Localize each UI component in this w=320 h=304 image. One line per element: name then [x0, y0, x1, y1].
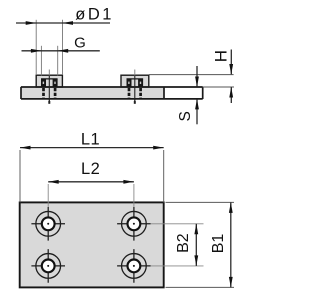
svg-text:S: S: [177, 111, 194, 121]
svg-text:L1: L1: [81, 131, 100, 149]
hole bottom-right counterbore circle: [122, 254, 147, 279]
hole bottom-left center dot: [47, 265, 49, 267]
hole top-left thread ring: [42, 217, 55, 230]
G arrow left: [31, 49, 42, 53]
oD1 arrow left: [26, 21, 37, 25]
svg-text:B1: B1: [210, 234, 227, 254]
hole top-left counterbore circle: [36, 211, 61, 236]
insert top line (right boss): [127, 78, 144, 80]
hidden hole dashes (left boss): [42, 88, 45, 99]
dimension H line lower: [230, 87, 232, 103]
hole bottom-right center dot: [133, 265, 135, 267]
insert section left-wall (right boss): [127, 79, 132, 87]
insert section right-wall (left boss): [53, 79, 58, 87]
hole bottom-left crosshair: [31, 249, 65, 283]
svg-text:L2: L2: [81, 160, 100, 178]
dimension G extension lines: [40, 46, 42, 76]
hole bottom-right thread ring: [127, 260, 140, 273]
dimension S line lower: [196, 99, 198, 124]
S arrow down: [195, 77, 199, 88]
hole top-left center dot: [47, 223, 49, 225]
hole top-right center dot: [133, 223, 135, 225]
L1 arrow right: [153, 146, 164, 150]
dimension L1 extension lines: [19, 150, 21, 202]
hole bottom-right crosshair: [117, 249, 151, 283]
S arrow up: [195, 99, 199, 110]
hole top-left crosshair: [31, 207, 65, 241]
centerline (left boss): [48, 70, 50, 76]
svg-text:øD1: øD1: [75, 5, 114, 23]
dimension L1 line: [20, 147, 164, 149]
dimension oD1 extension lines: [35, 20, 37, 75]
svg-text:B2: B2: [175, 233, 192, 253]
hidden hole dashes (right boss): [128, 88, 131, 99]
B2 arrow up: [194, 224, 198, 235]
dimension B1 line: [230, 202, 232, 287]
plate outline (side view): [21, 87, 203, 99]
dimension B2 extension lines: [151, 223, 204, 225]
dimension L2 line: [48, 181, 134, 183]
plate body white section (side view): [164, 87, 203, 99]
L1 arrow left: [20, 146, 31, 150]
dimension H extension line (boss top): [149, 74, 234, 76]
plate body gray section (side view): [21, 87, 164, 99]
H arrow up: [229, 87, 233, 98]
hole bottom-left counterbore circle: [36, 254, 61, 279]
dimension H extension line (plate top): [203, 86, 234, 88]
dimension B2 line: [195, 224, 197, 266]
B2 arrow down: [194, 255, 198, 266]
centerline (right boss): [134, 70, 136, 76]
dimension L2 extension lines: [47, 184, 49, 207]
hole top-right thread ring: [127, 217, 140, 230]
hole top-right counterbore circle: [122, 211, 147, 236]
dimension S line upper: [196, 66, 198, 87]
insert top line (left boss): [41, 78, 58, 80]
svg-text:H: H: [211, 50, 230, 62]
oD1 arrow right: [63, 21, 74, 25]
svg-text:G: G: [74, 35, 86, 52]
baseplate (bottom view): [20, 202, 164, 287]
H arrow down: [229, 64, 233, 75]
dimension H line upper: [230, 50, 232, 75]
B1 arrow down: [229, 277, 233, 288]
G arrow right: [58, 49, 68, 53]
L2 arrow left: [48, 180, 59, 184]
insert section right-wall (right boss): [138, 79, 143, 87]
insert section left-wall (left boss): [41, 79, 46, 87]
dimension B1 extension lines: [166, 201, 235, 203]
dimension G line: [22, 50, 100, 52]
hole top-right crosshair: [117, 207, 151, 241]
dimension oD1 line: [16, 22, 110, 24]
hole bottom-left thread ring: [42, 260, 55, 273]
boss right: [121, 75, 149, 87]
L2 arrow right: [123, 180, 133, 184]
B1 arrow up: [229, 202, 233, 213]
boss left: [36, 75, 62, 87]
